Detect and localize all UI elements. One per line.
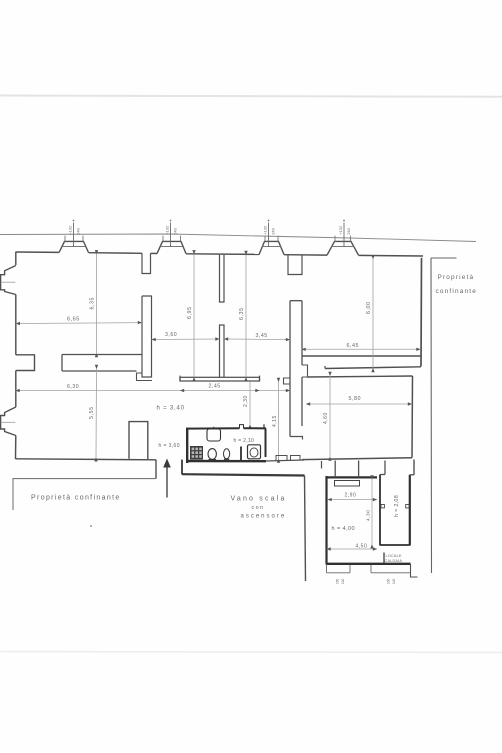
- svg-text:150: 150: [387, 578, 391, 584]
- partition wall P1 lower: [142, 296, 152, 377]
- dimension 4,50 line: [327, 548, 378, 550]
- hall south wall bar: [180, 377, 260, 381]
- south wall of big right room: [302, 355, 421, 357]
- bay window B1 sill line: [1, 281, 16, 283]
- exterior steps right: [371, 572, 411, 574]
- south-east room north wall: [308, 376, 413, 377]
- corridor west wall upper jamb: [384, 461, 386, 475]
- corridor wall south: [62, 370, 137, 372]
- double wall A flange: [284, 378, 291, 384]
- corridor wall north: [62, 354, 142, 356]
- boiler block south wall foot: [411, 564, 418, 577]
- svg-text:3,45: 3,45: [256, 333, 268, 339]
- dimension 4,60 line: [329, 376, 331, 457]
- svg-text:6,30: 6,30: [67, 384, 79, 390]
- dimension 5,80 line: [306, 403, 412, 405]
- exterior wall top segment 1: [16, 251, 59, 253]
- svg-text:ascensore: ascensore: [241, 514, 287, 520]
- corridor south end wall: [380, 544, 410, 546]
- corridor west wall: [379, 475, 381, 546]
- partition wall P2 lower: [220, 325, 225, 377]
- property boundary line top: [0, 234, 476, 242]
- svg-text:240: 240: [76, 227, 81, 234]
- dimension 6,35 line left room: [96, 254, 98, 353]
- corridor wall end cap: [61, 355, 63, 372]
- landing bump: [291, 456, 301, 461]
- exterior wall top segment 6: [359, 254, 424, 257]
- svg-text:240: 240: [173, 227, 178, 234]
- bathroom east wall: [265, 428, 267, 457]
- exterior wall top segment 3: [151, 252, 158, 254]
- partition wall P2 upper: [220, 255, 225, 302]
- svg-text:6,35: 6,35: [239, 308, 245, 321]
- wc partition wall: [240, 447, 242, 461]
- dimension chain 6,30 and 2,45 line: [16, 390, 291, 392]
- exterior wall top segment 4: [186, 253, 259, 256]
- dimension 3,60 line: [152, 338, 220, 341]
- window bay W3 on top wall: [259, 241, 284, 254]
- dimension 6,35 line room 3: [245, 255, 247, 378]
- svg-text:Vano scala: Vano scala: [231, 496, 287, 503]
- corridor east wall: [409, 475, 411, 546]
- svg-text:Proprietà confinante: Proprietà confinante: [31, 495, 121, 502]
- window level marker W3: [268, 223, 270, 248]
- stair block outer east wall: [305, 476, 306, 582]
- svg-text:h = 2,08: h = 2,08: [394, 495, 400, 517]
- svg-text:4,60: 4,60: [323, 412, 329, 424]
- dimension 4,30 line: [371, 479, 373, 545]
- left exterior wall lower: [15, 436, 17, 460]
- dimension 5,55 line: [95, 369, 98, 458]
- dimension 4,15 line: [278, 382, 280, 459]
- svg-text:+132: +132: [164, 225, 169, 235]
- svg-text:240: 240: [346, 227, 351, 234]
- svg-text:4,50: 4,50: [356, 544, 368, 550]
- sink fixture: [207, 429, 221, 441]
- bay window B2 left wall: [1, 407, 16, 436]
- corridor mid notches: [381, 505, 384, 508]
- chimney stub on top wall: [288, 255, 302, 275]
- stair block outer west wall: [181, 460, 183, 475]
- exterior wall top segment 5: [284, 254, 327, 256]
- dimension 6,95 line room 2: [193, 254, 195, 377]
- double wall A west line: [289, 301, 291, 437]
- double wall top cap: [290, 300, 302, 302]
- south-east room east wall: [411, 376, 414, 458]
- dimension 6,65 line: [16, 322, 142, 325]
- double wall B lower: [301, 377, 303, 426]
- left exterior wall upper: [15, 252, 17, 265]
- property boundary line bottom left: [13, 479, 156, 510]
- bathroom south wall: [187, 460, 267, 463]
- door jamb SE room to passage: [321, 461, 323, 469]
- svg-text:con: con: [252, 505, 265, 511]
- svg-text:2,30: 2,30: [243, 395, 249, 407]
- right exterior wall: [420, 258, 423, 367]
- partition stub P1 upper (notch): [142, 253, 151, 273]
- svg-text:6,35: 6,35: [90, 297, 96, 310]
- bathroom top wall right step: [263, 424, 265, 428]
- bay window B2 sill line: [1, 421, 16, 423]
- svg-text:6,65: 6,65: [67, 317, 80, 323]
- terrace wall below big right room: [325, 367, 421, 369]
- svg-text:150: 150: [336, 578, 340, 584]
- stair block outer south wall: [182, 474, 305, 475]
- double wall B notch: [302, 365, 308, 377]
- svg-text:h = 3,40: h = 3,40: [157, 406, 185, 412]
- svg-text:140: 140: [341, 578, 345, 584]
- svg-text:CALDAIA: CALDAIA: [385, 559, 403, 563]
- scan artifact line top: [0, 96, 502, 97]
- svg-text:LOCALE: LOCALE: [386, 554, 402, 558]
- dimension 6,45 line: [302, 348, 421, 350]
- dimension 6,00 line: [372, 259, 374, 368]
- toilet fixture 1: [208, 449, 216, 460]
- svg-text:3,60: 3,60: [165, 332, 177, 338]
- bay window B1 left wall: [1, 266, 16, 295]
- svg-text:6,95: 6,95: [187, 307, 193, 320]
- svg-text:4,30: 4,30: [365, 510, 371, 521]
- passage jamb left SE room to boiler: [334, 461, 336, 478]
- chimney pier on bottom wall: [129, 422, 148, 459]
- boiler block south wall: [327, 563, 411, 565]
- left exterior wall middle: [15, 295, 17, 355]
- svg-text:confinante: confinante: [436, 288, 478, 295]
- south-east room south wall: [302, 458, 412, 460]
- window level marker W2: [170, 223, 172, 248]
- bathroom top wall notch: [240, 425, 244, 429]
- svg-text:+132: +132: [338, 225, 343, 235]
- svg-text:6,00: 6,00: [366, 302, 372, 315]
- scan artifact line bottom: [0, 652, 502, 653]
- double wall bottom jog: [290, 437, 303, 440]
- dimension 3,45 line: [224, 338, 290, 341]
- caldaia divider wall: [383, 553, 385, 564]
- small dot mark: [90, 525, 92, 527]
- exterior steps left: [327, 572, 351, 574]
- svg-text:6,45: 6,45: [347, 343, 360, 349]
- left exterior wall below pier: [15, 371, 17, 408]
- svg-text:240: 240: [271, 227, 276, 234]
- passage jamb right SE room to boiler: [358, 461, 360, 478]
- svg-text:2,90: 2,90: [345, 493, 357, 499]
- boiler room west wall: [325, 476, 327, 565]
- window bay W1 on top wall: [59, 241, 89, 252]
- window bay W2 on top wall: [157, 241, 186, 253]
- boiler room niche: [335, 481, 360, 487]
- svg-text:2,45: 2,45: [209, 384, 221, 390]
- bidet fixture: [224, 449, 230, 459]
- svg-text:h = 3,60: h = 3,60: [159, 443, 180, 449]
- stove fixture: [190, 446, 203, 460]
- bottom exterior wall left: [16, 459, 157, 460]
- partition wall P1 foot: [137, 373, 153, 381]
- dimension 2,90 line: [328, 499, 378, 501]
- landing step: [276, 456, 287, 462]
- exterior wall top segment 2: [89, 252, 143, 255]
- wall pier on left wall: [16, 355, 35, 371]
- svg-text:+132: +132: [262, 225, 267, 235]
- svg-text:Proprietà: Proprietà: [438, 274, 475, 281]
- svg-text:5,80: 5,80: [349, 396, 362, 402]
- dimension 2,30 line: [249, 382, 251, 425]
- bathroom west wall: [186, 428, 188, 463]
- entrance arrow: [166, 466, 168, 498]
- svg-text:140: 140: [392, 578, 396, 584]
- window level marker W1: [73, 223, 75, 248]
- svg-text:5,55: 5,55: [89, 407, 95, 420]
- window level marker W4: [343, 223, 345, 248]
- boiler room north wall: [327, 476, 378, 478]
- svg-text:h = 2,10: h = 2,10: [234, 438, 255, 444]
- wc toilet fixture: [248, 445, 261, 459]
- svg-text:h = 4,00: h = 4,00: [332, 526, 356, 532]
- svg-text:+132: +132: [67, 225, 72, 235]
- landing south edge: [266, 460, 304, 461]
- svg-text:4,15: 4,15: [272, 415, 278, 427]
- double wall B east line: [301, 301, 303, 365]
- entrance recess wall: [155, 460, 157, 479]
- bathroom top wall: [187, 427, 240, 429]
- right property boundary line: [430, 258, 433, 573]
- corridor east wall upper jamb: [413, 460, 415, 475]
- window bay W4 on top wall: [327, 241, 359, 255]
